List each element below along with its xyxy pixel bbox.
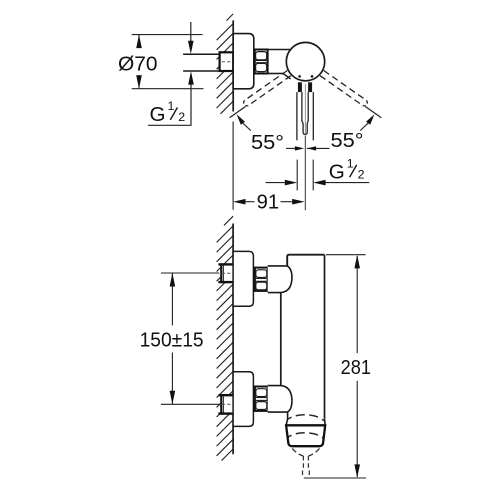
- 150 +/- 15 dimension: [161, 273, 219, 404]
- bottom wall union stub (front view): [218, 394, 233, 414]
- svg-text:2: 2: [358, 168, 365, 182]
- 91 dimension: [232, 122, 234, 210]
- screw dots on circle: [298, 75, 301, 78]
- inlet tube through wall (top view): [183, 54, 220, 71]
- wall hatching (front view): [217, 216, 234, 460]
- union cylinder to body (top view): [268, 50, 291, 74]
- hex wall fitting (top view): [220, 52, 234, 71]
- bottom S-union dome (front view): [268, 386, 292, 413]
- hidden ball joint dashed arc upper: [288, 415, 324, 421]
- dia-70 dimension: [132, 35, 204, 89]
- svg-text:281: 281: [341, 356, 371, 379]
- hidden outlet flare dashed: [292, 448, 303, 456]
- G 1/2 text (right): [329, 156, 365, 183]
- svg-text:G: G: [150, 103, 166, 126]
- right dashed grip end cap: [363, 100, 368, 106]
- right 55-deg arrowhead: [366, 114, 374, 125]
- left 55-deg arrowhead: [237, 114, 245, 125]
- left 55-deg dashed lever lines: [245, 71, 291, 106]
- svg-text:91: 91: [257, 190, 280, 213]
- lever collar blocks (top view): [298, 82, 302, 92]
- left dashed grip end cap: [244, 100, 249, 106]
- escutcheon flange (top view): [233, 34, 254, 89]
- shower outlet cup fill (front view): [286, 425, 325, 446]
- top wall union stub (front view): [218, 263, 233, 283]
- svg-text:G: G: [329, 161, 345, 184]
- 281 dimension: [304, 255, 366, 478]
- diagonal silhouette line under circle: [283, 74, 291, 79]
- G 1/2 text (upper left): [150, 99, 186, 126]
- bottom union nut (front view): [255, 387, 268, 411]
- right 55-deg dashed lever lines: [320, 71, 366, 106]
- hidden ball joint dashed arc lower: [288, 433, 324, 439]
- wall face line (front view): [232, 224, 234, 455]
- G 1/2 outlet dimension (right): [266, 160, 370, 191]
- lever grip outline (top view): [297, 92, 313, 140]
- right 55-deg extension line: [365, 107, 381, 118]
- body left edge (front view): [280, 293, 282, 386]
- lever rod (top view): [302, 92, 308, 134]
- body cap top edge (front view): [287, 255, 324, 266]
- union nut (top view): [255, 50, 268, 74]
- svg-text:55°: 55°: [251, 131, 284, 154]
- body right edge (front view): [324, 255, 326, 419]
- top escutcheon (front view): [233, 251, 253, 306]
- G 1/2 wall-thread callout (upper left): [190, 22, 192, 42]
- centerline through lever: [304, 84, 306, 134]
- bottom escutcheon (front view): [233, 372, 253, 427]
- left 55-deg extension line: [230, 107, 246, 118]
- top S-union dome (front view): [268, 266, 292, 293]
- svg-text:55°: 55°: [331, 129, 364, 152]
- svg-text:1: 1: [168, 99, 175, 113]
- svg-text:1: 1: [347, 156, 354, 170]
- shower outlet cup outline (front view): [286, 425, 325, 446]
- svg-text:Ø70: Ø70: [118, 53, 158, 76]
- cartridge housing circle (top view): [286, 42, 324, 80]
- inward arrows at lever center: [286, 147, 296, 149]
- top union nut (front view): [255, 268, 268, 291]
- lower body left edge + neck (front view): [286, 412, 288, 425]
- hidden hose dashed: [302, 456, 305, 476]
- svg-text:150±15: 150±15: [140, 328, 204, 351]
- wall face line (top view): [232, 20, 234, 111]
- wall hatching (top view): [217, 14, 234, 114]
- svg-text:2: 2: [178, 110, 185, 124]
